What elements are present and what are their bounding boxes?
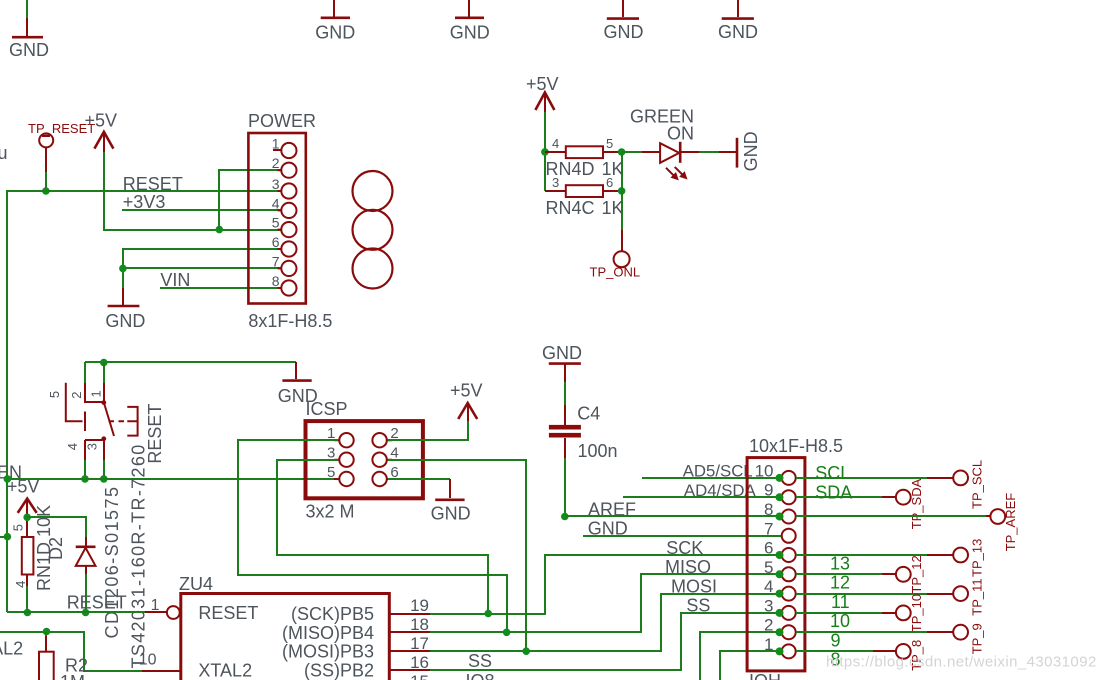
mounting hole circle 2 — [353, 210, 393, 250]
pin stub ZU4 pin1 — [145, 611, 167, 613]
svg-text:6: 6 — [606, 175, 613, 190]
wire stub to TP_ONL — [621, 230, 623, 251]
svg-text:TS42031-160R-TR-7260: TS42031-160R-TR-7260 — [128, 443, 148, 668]
wire switch pin1 drop — [103, 362, 105, 383]
svg-text:5: 5 — [47, 391, 62, 398]
svg-text:GND: GND — [431, 504, 471, 524]
wire R2 top — [45, 632, 47, 636]
svg-text:100n: 100n — [578, 441, 618, 461]
wire AREF to IOH pin8 — [565, 515, 779, 517]
pin terminal dots IOH — [776, 474, 784, 656]
svg-text:POWER: POWER — [248, 111, 316, 131]
wire +5V down and right to POWER pin5 — [104, 152, 281, 230]
svg-text:C4: C4 — [577, 404, 600, 424]
junction MOSI ICSP branch — [522, 647, 530, 655]
svg-text:TP_10: TP_10 — [909, 594, 924, 632]
pin 1 bubble ZU4 — [151, 597, 180, 619]
junction C4 on AREF — [561, 513, 569, 521]
wire MISO pin18 — [430, 574, 779, 632]
svg-text:+5V: +5V — [7, 477, 40, 497]
svg-text:1: 1 — [151, 597, 160, 614]
svg-text:IO8: IO8 — [466, 671, 495, 680]
svg-text:GND: GND — [718, 22, 758, 42]
svg-text:SDA: SDA — [815, 483, 852, 503]
led LED1 green ON — [642, 142, 699, 181]
wire D2 anode to RESET net — [85, 574, 87, 612]
testpoint TP_9 — [927, 623, 985, 654]
wire XTAL2 net — [0, 632, 142, 671]
svg-text:1: 1 — [89, 390, 104, 397]
svg-text:+5V: +5V — [450, 380, 483, 400]
power +5V at RN1D — [7, 477, 40, 526]
svg-text:5: 5 — [606, 136, 613, 151]
ground GND top-5 — [718, 0, 758, 42]
svg-text:MISO: MISO — [665, 557, 711, 577]
svg-text:+5V: +5V — [526, 74, 559, 94]
pin numbers 19-15 ZU4 — [410, 596, 429, 680]
junction left vertical at y536.7 — [4, 533, 12, 541]
svg-text:GND: GND — [450, 22, 490, 42]
wire between junctions and down — [621, 152, 623, 230]
svg-text:4: 4 — [272, 195, 280, 211]
svg-text:4: 4 — [65, 443, 80, 450]
svg-text:XTAL2: XTAL2 — [198, 661, 252, 680]
testpoint TP_8 — [873, 640, 924, 671]
wire +5V to RN4D pin4 — [544, 112, 546, 191]
ground GND right of LED (rotated) — [719, 131, 761, 171]
wire SDA to TP_SDA — [796, 496, 882, 498]
junction R2 on XTAL2 — [43, 628, 51, 636]
junction at RN4D pin 4 — [541, 148, 549, 156]
svg-text:1: 1 — [764, 635, 773, 654]
svg-text:4: 4 — [552, 136, 559, 151]
svg-text:GND: GND — [315, 22, 355, 42]
svg-text:IOH: IOH — [749, 671, 781, 680]
svg-text:ICSP: ICSP — [306, 399, 348, 419]
svg-text:https://blog.csdn.net/weixin_4: https://blog.csdn.net/weixin_43031092 — [826, 654, 1097, 671]
wire ICSP pin2 to +5V — [388, 421, 468, 440]
wire C4 to AREF net — [564, 458, 566, 516]
svg-text:8x1F-H8.5: 8x1F-H8.5 — [248, 311, 332, 331]
svg-text:7: 7 — [764, 519, 773, 538]
svg-text:3: 3 — [552, 175, 559, 190]
pin numbers POWER — [272, 136, 280, 290]
wire SS pin16 — [430, 613, 779, 670]
wire VIN to POWER pin8 — [160, 287, 281, 289]
pin stubs ZU4 right — [389, 614, 430, 670]
wire LED cathode to GND — [699, 151, 719, 153]
svg-text:TP_SDA: TP_SDA — [909, 478, 924, 529]
svg-text:+5V: +5V — [85, 110, 118, 130]
svg-text:TP_9: TP_9 — [970, 623, 985, 654]
wire IOH pin2 from below — [700, 632, 779, 680]
svg-text:6: 6 — [272, 234, 280, 250]
wire GND to IOH pin7 — [583, 535, 782, 537]
ground GND far-left — [9, 18, 49, 60]
svg-text:12: 12 — [830, 573, 850, 593]
svg-text:TP_11: TP_11 — [970, 578, 985, 615]
junction RN4C to TP_ONL — [618, 187, 626, 195]
svg-text:(SS)PB2: (SS)PB2 — [304, 661, 374, 680]
wire to LED anode — [622, 151, 642, 153]
testpoint TP_SDA — [882, 478, 924, 529]
svg-text:TP_13: TP_13 — [970, 539, 985, 577]
wire SCK pin19 — [430, 555, 779, 614]
svg-text:ZU4: ZU4 — [179, 574, 213, 594]
connector ICSP 3x2M — [306, 399, 423, 522]
svg-text:1M: 1M — [60, 672, 85, 680]
testpoint TP_10 — [882, 594, 924, 632]
wire GND to POWER pin6 — [123, 249, 281, 268]
svg-text:(MISO)PB4: (MISO)PB4 — [282, 623, 374, 643]
wire ICSP pin3 SCK route — [277, 460, 488, 614]
svg-text:4: 4 — [13, 581, 28, 588]
wire RESET net to ZU4 pin1 — [7, 611, 145, 613]
svg-text:u: u — [0, 143, 8, 163]
wire RN4C right pin — [603, 190, 622, 192]
wire AD4/SDA to IOH pin9 — [623, 496, 779, 498]
ic ZU4 ATmega — [179, 574, 389, 680]
svg-text:RN4C: RN4C — [546, 198, 595, 218]
svg-text:5: 5 — [11, 524, 26, 531]
wire from left edge into vertical — [0, 536, 7, 538]
svg-text:SS: SS — [468, 651, 492, 671]
ground GND above C4 — [542, 343, 582, 382]
wire RN4C left pin — [545, 190, 566, 192]
svg-text:10: 10 — [830, 611, 850, 631]
svg-text:TP_ONL: TP_ONL — [590, 265, 641, 280]
ground GND at ICSP — [431, 479, 471, 524]
wire SCL to TP_SCL — [796, 477, 927, 479]
pin numbers ICSP — [327, 425, 399, 481]
svg-text:13: 13 — [830, 553, 850, 573]
testpoint TP_12 — [882, 555, 924, 593]
ground GND top-2 — [315, 0, 355, 42]
svg-text:SCK: SCK — [666, 538, 703, 558]
junction +5V node — [23, 514, 31, 522]
wire 10 to TP_10 — [796, 612, 882, 614]
svg-text:GND: GND — [542, 343, 582, 363]
svg-text:10: 10 — [755, 461, 774, 480]
pin circles POWER 1-8 — [281, 143, 296, 296]
labels 13-8 green — [830, 553, 850, 669]
wire RN4D right pin — [603, 151, 622, 153]
mounting hole circle 1 — [353, 171, 393, 211]
svg-text:10x1F-H8.5: 10x1F-H8.5 — [749, 436, 843, 456]
svg-text:3: 3 — [764, 596, 773, 615]
ground GND right of switch — [278, 362, 318, 406]
junction MISO ICSP branch — [503, 629, 511, 637]
pin circles IOH 10-1 — [782, 471, 796, 659]
ground GND below POWER — [105, 288, 145, 331]
wire ICSP pin1 MISO route — [238, 440, 507, 632]
wire AREF to TP_AREF — [796, 515, 986, 517]
pin nibs POWER — [278, 170, 282, 288]
switch RESET TS42 — [66, 383, 138, 460]
svg-text:15: 15 — [410, 672, 429, 680]
pin names PB5-PB2 ZU4 — [282, 604, 374, 680]
power +5V main — [85, 110, 118, 152]
testpoint TP_11 — [927, 578, 985, 615]
junction D2 on RESET — [82, 609, 90, 617]
svg-text:5: 5 — [764, 558, 773, 577]
testpoint TP_ONL — [590, 251, 641, 279]
wire RN1D to RESET net — [26, 586, 28, 612]
wire RN4D left pin — [545, 151, 566, 153]
testpoint TP_AREF — [986, 493, 1018, 552]
svg-text:RESET: RESET — [67, 593, 127, 613]
svg-text:TP_SCL: TP_SCL — [970, 460, 985, 509]
resistor RN4C — [546, 175, 624, 218]
capacitor C4 100n — [549, 404, 618, 461]
svg-text:GND: GND — [105, 311, 145, 331]
junction switch pin1 top — [100, 359, 108, 367]
pin numbers IOH — [755, 461, 774, 654]
junction switch pin3 on EN — [100, 475, 108, 483]
svg-text:8: 8 — [272, 273, 280, 289]
svg-text:4: 4 — [764, 577, 773, 596]
wire to GND far-left — [26, 0, 28, 18]
resistor RN1D 10K — [22, 526, 34, 586]
testpoint TP_SCL — [927, 460, 985, 509]
ground GND top-4 — [604, 0, 644, 42]
wire +5V to D2 cathode — [27, 517, 86, 537]
svg-text:D2: D2 — [46, 537, 66, 560]
svg-text:7: 7 — [272, 253, 280, 269]
svg-text:RESET: RESET — [198, 603, 258, 623]
svg-text:8: 8 — [764, 500, 773, 519]
svg-text:3: 3 — [272, 176, 280, 192]
wire switch pins 3-4 to EN net — [85, 460, 104, 479]
svg-text:SS: SS — [686, 596, 710, 616]
wire ICSP pin4 MOSI route — [388, 460, 526, 651]
svg-text:GND: GND — [741, 131, 761, 171]
wire GND to POWER pin7 — [123, 268, 281, 288]
svg-text:3: 3 — [85, 443, 100, 450]
svg-text:1K: 1K — [602, 198, 624, 218]
connector POWER 8x1F-H8.5 — [248, 111, 332, 331]
junction switch pin4 on EN — [81, 475, 89, 483]
wire TP_RESET to RESET net — [45, 172, 47, 191]
junction GND pins 6-7 — [119, 265, 127, 273]
svg-text:3x2 M: 3x2 M — [306, 502, 355, 522]
junction SCK ICSP branch — [484, 610, 492, 618]
wire 9 to TP_9 — [796, 631, 927, 633]
svg-text:SCL: SCL — [815, 463, 850, 483]
wire ICSP pin6 to GND — [388, 478, 450, 480]
wire IOH pin1 from below — [720, 651, 779, 680]
svg-text:19: 19 — [410, 596, 429, 615]
resistor RN4D — [546, 136, 624, 179]
junction EN at left vertical — [4, 475, 12, 483]
pin 1 stub POWER — [273, 149, 281, 151]
connector IOH 10x1F-H8.5 — [747, 436, 843, 680]
svg-text:2: 2 — [69, 391, 84, 398]
svg-text:9: 9 — [831, 631, 841, 651]
junction +5V at x219 — [216, 226, 224, 234]
svg-text:CD1206-S01575: CD1206-S01575 — [102, 486, 122, 639]
testpoint TP_13 — [927, 539, 985, 577]
svg-text:6: 6 — [764, 539, 773, 558]
svg-text:10: 10 — [139, 652, 157, 669]
svg-text:(MOSI)PB3: (MOSI)PB3 — [282, 642, 374, 662]
wire +3V3 to POWER pin4 — [122, 209, 281, 211]
wire +5V branch to POWER pin2 — [219, 170, 281, 230]
svg-text:(SCK)PB5: (SCK)PB5 — [291, 604, 374, 624]
wire AD5/SCL to IOH pin10 — [642, 477, 779, 479]
wire EN net to ICSP pin5 — [7, 478, 338, 480]
svg-text:MOSI: MOSI — [671, 576, 717, 596]
mounting hole circle 3 — [353, 249, 393, 289]
svg-text:5: 5 — [272, 215, 280, 231]
wire GND to C4 — [564, 382, 566, 405]
wire switch pin2 drop — [84, 362, 86, 383]
wire RESET net horizontal+left vertical — [7, 191, 281, 612]
svg-text:TP_12: TP_12 — [909, 555, 924, 593]
junction on RESET net at TP_RESET — [42, 187, 50, 195]
wire MOSI pin17 — [430, 594, 779, 651]
junction RN1D on RESET — [24, 609, 32, 617]
junction node ON net — [618, 148, 626, 156]
diode D2 — [76, 537, 96, 574]
wire switch top net to GND — [85, 361, 296, 363]
svg-text:XTAL2: XTAL2 — [0, 638, 23, 658]
resistor R2 1M — [39, 636, 88, 680]
testpoint TP_RESET — [28, 121, 95, 172]
pin nibs ICSP — [334, 440, 392, 479]
ground GND top-3 — [450, 0, 490, 42]
svg-text:GND: GND — [9, 40, 49, 60]
svg-text:2: 2 — [272, 155, 280, 171]
pin stub ZU4 pin10 — [142, 670, 181, 672]
svg-text:GND: GND — [604, 22, 644, 42]
pin circles ICSP — [339, 433, 387, 486]
wire 12 to TP_12 — [796, 573, 882, 575]
svg-text:9: 9 — [764, 481, 773, 500]
wire 13 to TP_13 — [796, 554, 927, 556]
svg-text:2: 2 — [764, 616, 773, 635]
power +5V at ICSP — [450, 380, 483, 421]
wire 11 to TP_11 — [796, 593, 927, 595]
svg-text:TP_AREF: TP_AREF — [1003, 493, 1018, 552]
wire 8 to TP_8 — [796, 650, 873, 652]
svg-text:ON: ON — [667, 124, 694, 144]
svg-text:1: 1 — [272, 136, 280, 152]
power +5V for LED — [526, 74, 559, 112]
